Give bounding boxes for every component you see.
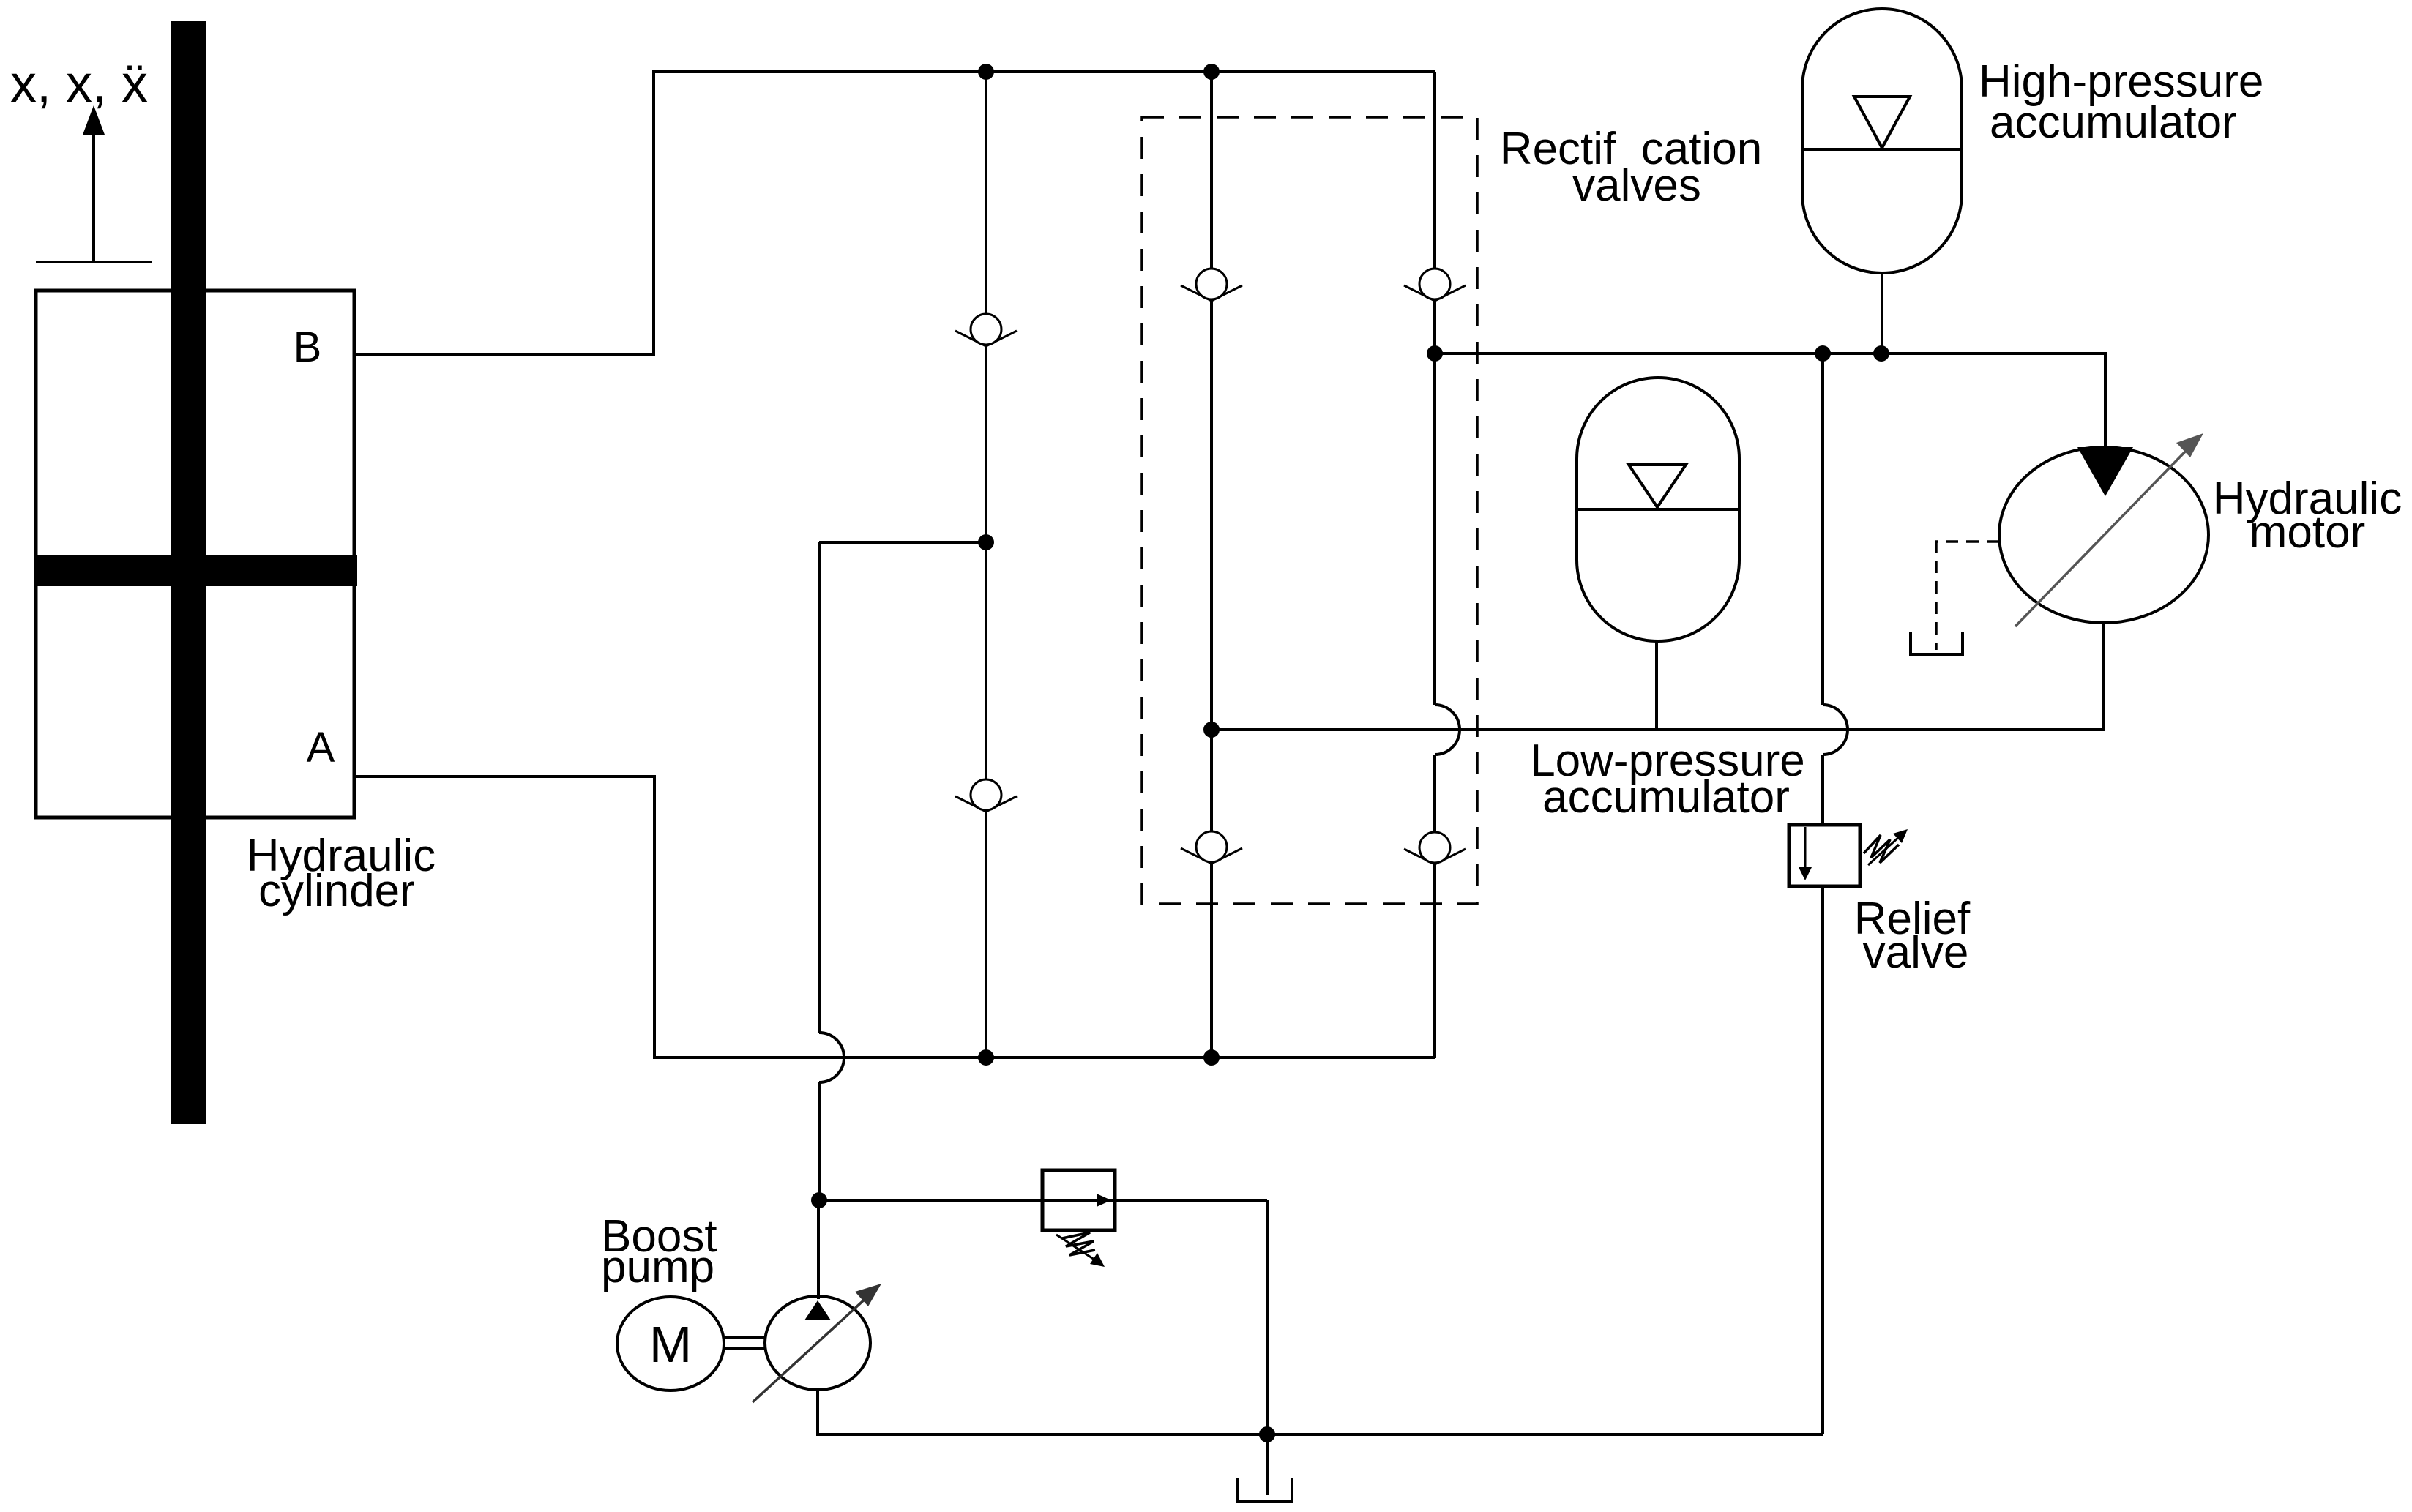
wire LP accumulator stem: [1655, 641, 1658, 730]
boost valve spring: [1062, 1232, 1095, 1255]
motor drain dashed line: [1936, 542, 1999, 650]
wire boost branch: [819, 1199, 1267, 1202]
motor flow triangle: [2077, 447, 2133, 496]
wire relief valve line: [1821, 353, 1824, 705]
hydraulic cylinder body: [36, 291, 354, 817]
motor drain tank: [1911, 632, 1963, 654]
gas triangle: [1854, 97, 1910, 148]
wire hop over LP bus: [1435, 705, 1460, 755]
boost pump circle: [765, 1296, 870, 1390]
check valve CV2 lower: [1181, 831, 1242, 864]
relief valve spring: [1864, 835, 1899, 863]
boost valve adjust arrow: [1056, 1235, 1105, 1267]
wire LP bus: [1211, 623, 2104, 730]
check valve CV3 upper: [1404, 269, 1466, 301]
svg-text:M: M: [649, 1316, 692, 1373]
wire branch to boost pump: [819, 541, 986, 544]
svg-text:pump: pump: [601, 1242, 714, 1292]
motor variable arrow: [2015, 433, 2203, 626]
coupling shaft: [724, 1336, 766, 1339]
displacement arrow: [83, 105, 105, 262]
accumulator separator line: [1802, 148, 1962, 151]
svg-text:valve: valve: [1863, 927, 1969, 978]
high-pressure accumulator shell: [1802, 9, 1962, 273]
pump flow triangle: [804, 1300, 831, 1320]
svg-text:x, x, ẍ: x, x, ẍ: [10, 55, 148, 113]
datum line: [36, 261, 152, 263]
relief valve body: [1789, 825, 1860, 886]
svg-text:valves: valves: [1572, 160, 1701, 211]
check valve CV2 upper: [1181, 269, 1242, 301]
hydraulic motor circle: [1999, 447, 2208, 623]
piston rod: [171, 21, 206, 1124]
svg-text:cylinder: cylinder: [258, 866, 415, 916]
wire B to top bus: [354, 72, 1435, 354]
check valve CV1 lower: [955, 779, 1017, 812]
relief valve internal arrow: [1799, 827, 1812, 880]
wire check line 2: [1210, 72, 1213, 1058]
main tank: [1238, 1434, 1292, 1502]
wire HP bus: [1435, 353, 2105, 447]
dashed rectification box: [1142, 117, 1477, 904]
low-pressure accumulator shell: [1577, 378, 1739, 641]
svg-text:motor: motor: [2249, 507, 2365, 558]
wire hop over LP bus: [1823, 705, 1848, 755]
electric motor circle: [617, 1297, 724, 1391]
svg-text:B: B: [294, 323, 322, 371]
boost valve internal arrow head: [1097, 1194, 1111, 1207]
wire HP accumulator stem: [1881, 273, 1883, 353]
svg-text:accumulator: accumulator: [1542, 772, 1790, 823]
piston: [36, 555, 357, 586]
wire pump inlet: [817, 1200, 820, 1299]
wire A to bottom bus: [354, 776, 1435, 1058]
check valve CV3 lower: [1404, 832, 1466, 864]
svg-text:A: A: [307, 724, 335, 771]
wire bottom tank bus: [818, 1390, 1823, 1434]
boost relief valve body: [1042, 1170, 1115, 1230]
check valve CV1 upper: [955, 314, 1017, 346]
wire check line 3: [1433, 72, 1436, 705]
accumulator separator line: [1577, 508, 1739, 511]
relief valve adjust arrow: [1868, 829, 1908, 865]
svg-text:accumulator: accumulator: [1990, 97, 2237, 148]
pump variable arrow: [753, 1284, 881, 1402]
wire hop over A bus: [819, 1033, 844, 1082]
gas triangle: [1629, 465, 1686, 507]
wire check line 1: [985, 72, 987, 1058]
